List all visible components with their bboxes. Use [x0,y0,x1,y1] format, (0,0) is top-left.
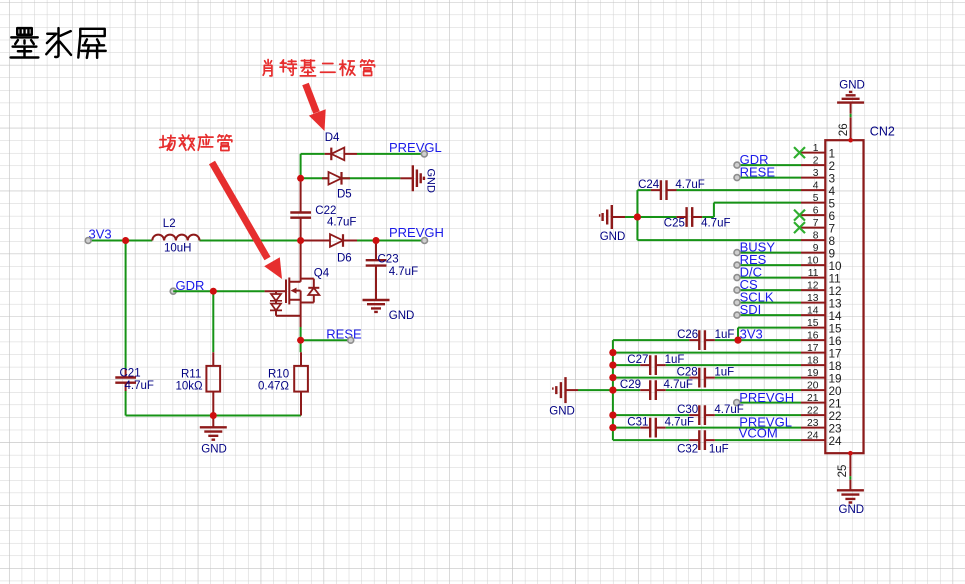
svg-text:20: 20 [807,381,819,392]
ground under C23 [363,300,415,322]
capacitor C24 [637,179,801,217]
RIGHT-CIRCUIT [549,79,895,516]
capacitor C26 [613,329,801,350]
capacitor C23 [366,241,418,301]
svg-text:CN2: CN2 [870,125,895,139]
svg-text:RESE: RESE [326,327,362,342]
svg-text:24: 24 [829,434,843,448]
svg-text:C28: C28 [677,366,698,378]
svg-text:PREVGH: PREVGH [739,390,794,405]
pin 13 [801,293,842,310]
connector CN2 [825,125,895,454]
svg-text:RESE: RESE [740,164,776,179]
svg-text:VCOM: VCOM [739,426,778,441]
junction [122,237,129,244]
svg-text:C29: C29 [620,379,641,391]
svg-text:Q4: Q4 [314,267,330,279]
svg-text:1: 1 [813,143,819,154]
svg-text:4.7uF: 4.7uF [701,218,730,230]
svg-text:1uF: 1uF [709,443,729,455]
pin 12 [801,281,842,298]
junction [210,412,217,419]
node PREVGL pin23 [739,414,792,429]
junction [373,237,380,244]
junction [609,412,616,419]
svg-text:3: 3 [813,168,819,179]
wire to PREVGH [357,240,422,242]
label mosfet text [160,135,232,151]
svg-text:D4: D4 [325,132,340,144]
capacitor C25 [637,203,801,230]
ground right of D5 [350,165,437,193]
svg-text:C32: C32 [677,443,698,455]
diode D6 [301,234,357,264]
svg-text:C22: C22 [315,205,336,217]
svg-text:5: 5 [813,193,819,204]
svg-text:C21: C21 [120,368,141,380]
node PREVGH [389,225,444,243]
wire pin17 gnd [613,352,801,354]
svg-text:21: 21 [807,393,819,404]
pin 8 [801,231,836,248]
svg-text:1uF: 1uF [715,329,735,341]
node SCLK pin 13 [734,289,801,305]
svg-text:4.7uF: 4.7uF [125,380,154,392]
capacitor C29 [613,379,801,400]
capacitor C28 [613,366,801,387]
svg-text:4.7uF: 4.7uF [665,416,694,428]
svg-text:4.7uF: 4.7uF [675,179,704,191]
node 3V3 [734,327,762,344]
svg-text:C31: C31 [627,416,648,428]
arrow to D4 [306,84,326,131]
svg-text:C24: C24 [638,179,660,191]
no-connect pin 6 [794,210,805,221]
node CS pin 12 [734,277,801,293]
svg-text:PREVGH: PREVGH [389,225,444,240]
junction [297,175,304,182]
junction [609,387,616,394]
node RESE [301,327,362,344]
svg-text:D5: D5 [337,189,352,201]
svg-text:GND: GND [839,504,865,516]
svg-text:GND: GND [425,169,437,194]
svg-text:9: 9 [813,243,819,254]
resistor R10 [258,352,308,415]
pin 4 [801,181,836,198]
pin 1 [801,143,835,160]
capacitor C21 [115,368,154,393]
svg-text:26: 26 [838,123,850,136]
svg-text:GND: GND [549,406,575,418]
svg-text:D6: D6 [337,252,352,264]
svg-text:R10: R10 [268,369,289,381]
junction [609,349,616,356]
svg-text:C26: C26 [677,329,698,341]
ground top [837,79,865,102]
svg-text:16: 16 [807,331,819,342]
node PREVGH pin21 [734,390,801,405]
node BUSY pin 9 [734,239,801,255]
svg-text:1uF: 1uF [665,354,685,366]
pin 23 [801,418,842,435]
pin 5 [801,193,836,210]
wire GDR to gate [173,290,264,292]
svg-text:12: 12 [807,281,819,292]
svg-text:SDI: SDI [740,302,762,317]
svg-text:10: 10 [807,256,819,267]
capacitor C32 [613,430,801,455]
svg-text:4.7uF: 4.7uF [664,379,693,391]
wire bottom rail [126,415,301,417]
ground under R11 [200,416,227,456]
pin 22 [801,406,842,423]
pin 21 [801,393,842,410]
svg-text:C23: C23 [378,253,399,265]
node PREVGL [357,140,442,157]
svg-text:23: 23 [807,418,819,429]
wire left branch down [125,241,127,416]
svg-text:15: 15 [807,318,819,329]
svg-text:25: 25 [837,465,849,478]
svg-text:C30: C30 [677,404,698,416]
no-connect pin 1 [794,147,805,158]
junction [297,237,304,244]
inductor L2 [152,218,199,255]
pin 24 [801,431,842,448]
node GDR [170,278,204,294]
wire C22 leads [300,178,302,240]
svg-text:GND: GND [600,231,626,243]
svg-text:0.47Ω: 0.47Ω [258,381,289,393]
wire junction to pin 8 [637,217,801,240]
ANNOTATIONS [11,28,375,279]
capacitor C31 [613,416,801,437]
svg-text:R11: R11 [181,369,201,381]
junction [609,424,616,431]
node VCOM pin24 [739,426,778,441]
label schottky diode text [263,60,374,76]
capacitor C30 [613,404,801,425]
svg-text:C25: C25 [664,218,685,230]
svg-text:17: 17 [807,343,819,354]
junction [210,288,217,295]
junction [609,374,616,381]
svg-text:3V3: 3V3 [89,226,112,241]
wire gnd bus vertical [612,340,614,440]
arrow to Q4 [212,163,282,280]
svg-text:GND: GND [389,310,415,322]
no-connect pin 7 [794,222,805,233]
pin 3 [801,168,836,185]
node SDI pin 14 [734,302,801,318]
pin 14 [801,306,842,323]
pin 2 [801,156,835,173]
svg-text:7: 7 [813,218,819,229]
wire gnd to junction [625,216,637,218]
svg-text:22: 22 [807,406,819,417]
svg-text:19: 19 [807,368,819,379]
svg-text:6: 6 [813,206,819,217]
svg-text:PREVGL: PREVGL [389,140,442,155]
node GDR pin 2 [734,152,801,168]
svg-text:C27: C27 [627,354,648,366]
junction dots overlay [122,175,741,431]
resistor R11 [176,352,221,415]
wire D4 branch [301,154,325,178]
diode D5 [301,172,352,201]
node D/C pin 11 [734,264,801,280]
capacitor C27 [613,354,801,375]
wire gate-source vert / RESE [300,327,302,340]
svg-text:10uH: 10uH [164,243,192,255]
svg-text:4: 4 [813,181,819,192]
svg-text:GND: GND [839,79,865,91]
svg-text:8: 8 [813,231,819,242]
pin 11 [801,268,841,285]
wire R10 top [300,340,302,352]
title 墨水屏 [11,28,106,58]
pin 25 [837,451,853,490]
svg-text:14: 14 [807,306,819,317]
pin 17 [801,343,842,360]
junction [634,213,641,220]
svg-text:GND: GND [201,443,227,455]
transistor Q4 [265,241,330,328]
svg-text:2: 2 [813,156,819,167]
svg-text:1uF: 1uF [714,366,734,378]
pin 10 [801,256,842,273]
svg-text:L2: L2 [163,218,176,230]
svg-text:13: 13 [807,293,819,304]
ground left of C24 [599,205,625,243]
node 3V3 [85,226,111,243]
svg-text:10kΩ: 10kΩ [176,381,204,393]
svg-text:24: 24 [807,431,819,442]
wire 3V3 rail left [88,240,301,242]
node RES pin 10 [734,252,801,268]
pin 16 [801,331,842,348]
junction RESE [297,337,304,344]
node RESE pin 3 [734,164,801,180]
LEFT-CIRCUIT [85,132,444,455]
wire pin15 to 3V3 [738,328,801,341]
junction [609,362,616,369]
pin 26 [838,103,853,142]
pin 7 [801,218,835,235]
svg-text:4.7uF: 4.7uF [389,266,418,278]
svg-text:18: 18 [807,356,819,367]
ground left of C29 [549,377,613,418]
ground bottom [837,490,864,516]
pin 9 [801,243,835,260]
pin 6 [801,206,836,223]
pin 19 [801,368,842,385]
svg-text:4.7uF: 4.7uF [327,216,356,228]
wire R11 top [212,291,214,352]
capacitor C22 [290,205,356,228]
pin 18 [801,356,842,373]
svg-text:11: 11 [808,268,819,279]
pin 20 [801,381,842,398]
pin 15 [801,318,842,335]
diode D4 [325,132,357,160]
